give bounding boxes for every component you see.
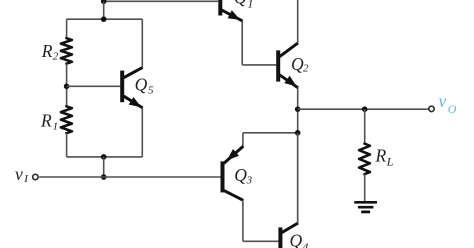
node input junction [101, 174, 107, 180]
wire Q3 emitter vertical [242, 133, 244, 147]
svg-text:Q: Q [290, 231, 303, 248]
transistor Q4 [278, 227, 282, 248]
transistor Q1 [218, 0, 222, 16]
svg-text:R: R [40, 111, 52, 131]
svg-text:2: 2 [303, 63, 309, 75]
wire input line [39, 176, 220, 178]
wire Q5 base [67, 85, 121, 87]
wire Q3 emitter to output rail [243, 132, 298, 134]
wire left rail between R2 and R1 [66, 63, 68, 106]
terminal vO [429, 106, 434, 111]
svg-text:v: v [439, 91, 447, 111]
node RL junction [362, 106, 368, 112]
svg-text:O: O [448, 102, 457, 116]
wire Q5 collector up [141, 19, 143, 68]
svg-text:Q: Q [135, 75, 148, 95]
svg-text:L: L [386, 154, 394, 168]
svg-text:R: R [41, 41, 53, 61]
svg-text:2: 2 [53, 51, 59, 63]
node output junction [295, 106, 301, 112]
node Q3 emitter junction [295, 130, 301, 136]
wire RL top [364, 109, 366, 144]
svg-text:R: R [375, 146, 387, 166]
wire Q5 emitter down [141, 108, 143, 157]
wire Q2 collector up [297, 0, 299, 43]
svg-text:5: 5 [148, 84, 154, 96]
wire multiplier bottom [67, 156, 143, 158]
wire Q3 collector down [242, 200, 244, 241]
transistor Q2 [276, 50, 280, 81]
resistor R1 [61, 106, 72, 133]
svg-text:v: v [15, 164, 23, 184]
wire RL bottom [364, 174, 366, 201]
node multiplier top junction [101, 16, 107, 22]
wire Q1 emitter down to Q2 base [241, 21, 243, 65]
svg-text:1: 1 [53, 121, 59, 133]
wire multiplier top [67, 18, 143, 20]
wire output rail Q2 emitter down to Q4 collector [297, 87, 299, 223]
node multiplier bottom junction [101, 154, 107, 160]
svg-text:3: 3 [246, 175, 253, 187]
wire Q4 base [243, 240, 279, 242]
node top junction [101, 0, 107, 4]
transistor Q5 [120, 71, 124, 103]
ground [354, 201, 377, 204]
svg-text:1: 1 [247, 0, 253, 11]
resistor R2 [61, 38, 72, 63]
svg-text:Q: Q [234, 165, 247, 185]
resistor RL [359, 144, 370, 175]
wire left rail above R2 [66, 19, 68, 38]
wire junction down to input line [103, 157, 105, 177]
wire output line [298, 108, 429, 110]
wire top junction down to multiplier top [103, 1, 105, 19]
wire top rail to Q1 base [104, 0, 219, 2]
node R1 R2 Q5-base junction [64, 84, 70, 90]
transistor Q3 [221, 161, 225, 192]
wire left rail below R1 [66, 133, 68, 157]
terminal vI [33, 174, 38, 179]
wire Q4 collector up [297, 133, 299, 224]
svg-text:Q: Q [234, 0, 247, 7]
svg-text:4: 4 [302, 240, 308, 248]
